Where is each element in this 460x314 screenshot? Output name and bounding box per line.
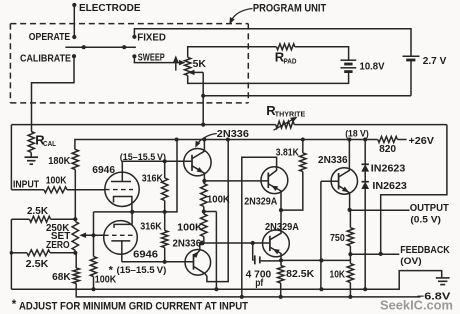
svg-text:10K: 10K bbox=[330, 269, 346, 280]
svg-text:100K: 100K bbox=[207, 194, 230, 205]
svg-text:SWEEP: SWEEP bbox=[138, 53, 165, 64]
svg-text:68K: 68K bbox=[52, 272, 70, 283]
svg-text:pf: pf bbox=[255, 278, 264, 289]
svg-text:FIXED: FIXED bbox=[137, 33, 166, 44]
svg-text:2N336: 2N336 bbox=[318, 155, 348, 166]
svg-text:2N336: 2N336 bbox=[217, 129, 250, 140]
svg-text:(15–15.5 V): (15–15.5 V) bbox=[117, 264, 167, 275]
svg-text:6946: 6946 bbox=[92, 165, 115, 176]
svg-text:PAD: PAD bbox=[284, 59, 297, 66]
svg-text:(OV): (OV) bbox=[400, 255, 421, 266]
svg-text:100K: 100K bbox=[95, 275, 116, 286]
svg-text:ADJUST FOR MINIMUM GRID CURREN: ADJUST FOR MINIMUM GRID CURRENT AT INPUT bbox=[19, 301, 248, 313]
svg-text:(0.5 V): (0.5 V) bbox=[410, 213, 441, 224]
svg-text:*: * bbox=[109, 264, 114, 276]
svg-text:PROGRAM UNIT: PROGRAM UNIT bbox=[253, 3, 327, 15]
svg-text:3.81K: 3.81K bbox=[276, 148, 299, 159]
svg-text:*: * bbox=[12, 299, 17, 311]
svg-text:2.5K: 2.5K bbox=[27, 206, 48, 217]
svg-text:(15–15.5 V): (15–15.5 V) bbox=[120, 151, 166, 162]
svg-text:10.8V: 10.8V bbox=[360, 61, 385, 72]
svg-text:+26V: +26V bbox=[409, 136, 435, 147]
svg-text:THYRITE: THYRITE bbox=[275, 111, 306, 118]
svg-text:820: 820 bbox=[379, 144, 397, 155]
svg-text:750: 750 bbox=[330, 233, 345, 244]
svg-text:OPERATE: OPERATE bbox=[29, 32, 71, 43]
svg-text:82.5K: 82.5K bbox=[286, 269, 314, 280]
svg-text:2N329A: 2N329A bbox=[244, 196, 277, 207]
svg-text:2N336: 2N336 bbox=[173, 239, 202, 250]
svg-text:ZERO: ZERO bbox=[46, 240, 70, 251]
svg-text:2N329A: 2N329A bbox=[265, 222, 299, 233]
svg-text:SeekIC.com: SeekIC.com bbox=[380, 297, 453, 312]
svg-text:(18 V): (18 V) bbox=[345, 128, 369, 139]
svg-text:100K: 100K bbox=[46, 176, 67, 187]
svg-text:IN2623: IN2623 bbox=[371, 163, 406, 174]
svg-text:5K: 5K bbox=[193, 59, 207, 70]
svg-text:316K: 316K bbox=[142, 173, 163, 184]
svg-text:CALIBRATE: CALIBRATE bbox=[20, 54, 71, 65]
svg-text:CAL: CAL bbox=[43, 139, 56, 148]
svg-text:100K: 100K bbox=[177, 222, 203, 233]
svg-text:IN2623: IN2623 bbox=[372, 181, 407, 192]
svg-text:6946: 6946 bbox=[133, 250, 159, 261]
svg-text:180K: 180K bbox=[48, 156, 70, 167]
svg-text:2.7 V: 2.7 V bbox=[423, 56, 447, 67]
svg-text:2.5K: 2.5K bbox=[26, 259, 49, 270]
svg-text:INPUT: INPUT bbox=[13, 179, 39, 190]
svg-text:316K: 316K bbox=[140, 221, 162, 232]
svg-text:ELECTRODE: ELECTRODE bbox=[79, 3, 141, 14]
